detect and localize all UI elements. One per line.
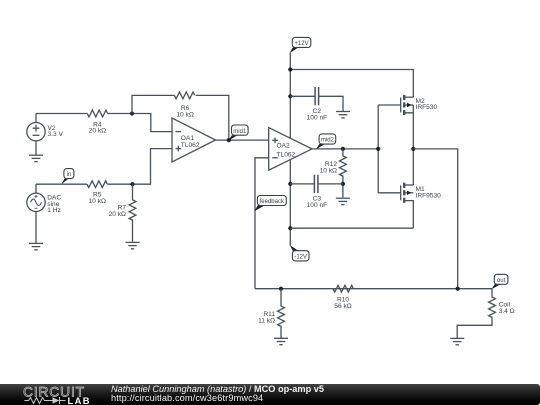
node mid1 junction <box>227 138 231 142</box>
node gate junction <box>376 147 380 151</box>
ground (C2) <box>336 112 350 118</box>
svg-text:mid1: mid1 <box>233 129 247 135</box>
resistor R7 <box>129 184 136 242</box>
ground (R11) <box>274 338 288 344</box>
+12V column <box>289 53 291 139</box>
wire OA2 out to gate column <box>312 148 378 150</box>
node +12V rail <box>288 67 292 71</box>
svg-text:10 kΩ: 10 kΩ <box>320 167 337 174</box>
svg-text:in: in <box>67 172 72 178</box>
ground (R12) <box>336 198 350 204</box>
resistor R6 <box>174 92 194 99</box>
node -12V rail <box>288 226 292 230</box>
resistor R11 <box>278 289 285 338</box>
gate column <box>377 105 379 193</box>
wire OA1 out to OA2 + input <box>216 139 269 141</box>
flag in <box>61 169 74 185</box>
node C3 tap <box>288 182 292 186</box>
flag +12V <box>290 37 311 53</box>
output column between M2 and M1 <box>412 113 414 185</box>
wire V2 to R4 <box>36 113 87 115</box>
svg-text:56 kΩ: 56 kΩ <box>334 303 351 310</box>
resistor R4 <box>87 110 107 117</box>
svg-text:3.4 Ω: 3.4 Ω <box>499 308 515 315</box>
flag feedback <box>254 196 286 212</box>
svg-text:100 nF: 100 nF <box>307 115 328 122</box>
node source junction <box>411 147 415 151</box>
svg-text:LAB: LAB <box>68 396 91 405</box>
node C2 tap <box>288 94 292 98</box>
node R12/C3 junction <box>341 182 345 186</box>
svg-text:100 nF: 100 nF <box>307 202 328 209</box>
resistor R10 <box>333 285 353 292</box>
node at R4/R6 junction <box>130 111 134 115</box>
flag -12V <box>290 245 309 261</box>
svg-text:20 kΩ: 20 kΩ <box>89 128 106 135</box>
wire to out column <box>413 149 457 289</box>
resistor R12 <box>340 149 347 198</box>
wire DAC to R5 <box>36 183 87 185</box>
op-amp OA1 <box>172 118 216 162</box>
wire up to R6 <box>132 95 174 113</box>
wire OA2 - input to feedback column <box>255 158 269 289</box>
wire R6 to OA1 output node <box>196 95 229 140</box>
top rail wire <box>290 70 413 98</box>
svg-text:mid2: mid2 <box>321 138 335 144</box>
op-amp OA2 <box>269 128 312 171</box>
svg-text:11 kΩ: 11 kΩ <box>258 318 275 325</box>
coil (inductor drawn as resistor) <box>457 289 495 339</box>
capacitor C2 <box>290 87 343 111</box>
wire R5 to OA1 + input <box>108 149 173 185</box>
svg-text:TL062: TL062 <box>277 151 296 158</box>
svg-text:1 Hz: 1 Hz <box>47 207 61 214</box>
capacitor C3 <box>290 175 343 193</box>
svg-text:3.3 V: 3.3 V <box>48 131 64 138</box>
bottom feedback rail <box>255 288 492 290</box>
transistor M2 <box>378 95 413 115</box>
ground (below V2) <box>29 155 43 161</box>
ground (coil) <box>450 338 464 344</box>
svg-text:OA2: OA2 <box>277 143 291 150</box>
wire R4 to OA1 - input <box>108 114 173 132</box>
transistor M1 <box>378 183 413 229</box>
svg-text:out: out <box>497 278 506 284</box>
CircuitLab logo <box>0 384 100 405</box>
svg-text:feedback: feedback <box>260 199 285 205</box>
node R11 top <box>279 287 283 291</box>
-12V rail wire <box>290 227 413 229</box>
flag mid1 <box>228 125 248 141</box>
svg-text:+12V: +12V <box>294 41 308 47</box>
DAC sine source <box>27 184 45 243</box>
node out column junction <box>456 287 460 291</box>
flag out <box>492 274 508 289</box>
node R5/R7 <box>130 182 134 186</box>
svg-text:20 kΩ: 20 kΩ <box>109 211 126 218</box>
ground (below R7) <box>126 242 140 248</box>
footer bar <box>0 384 540 405</box>
svg-text:IRF530: IRF530 <box>416 104 438 111</box>
node R12 top <box>341 147 345 151</box>
resistor R5 <box>87 181 107 188</box>
svg-text:TL062: TL062 <box>181 142 200 149</box>
ground (below DAC) <box>29 243 43 249</box>
svg-text:-12V: -12V <box>294 255 307 261</box>
svg-text:10 kΩ: 10 kΩ <box>88 198 105 205</box>
OA2 V- column <box>289 160 291 246</box>
svg-text:IRF9530: IRF9530 <box>416 192 442 199</box>
svg-text:10 kΩ: 10 kΩ <box>176 111 193 118</box>
voltage source V2 <box>27 114 45 155</box>
flag mid2 <box>316 134 336 150</box>
svg-text:OA1: OA1 <box>181 135 195 142</box>
